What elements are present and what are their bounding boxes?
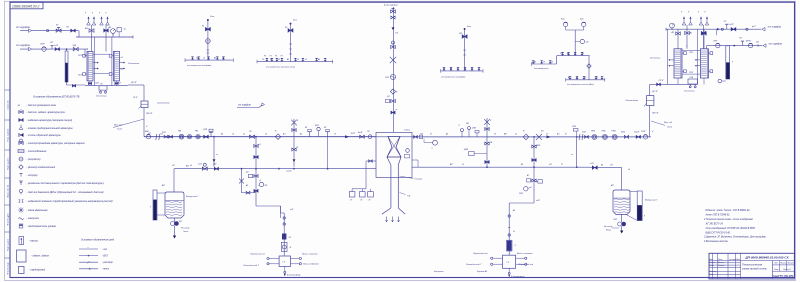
svg-text:зЗ: зЗ xyxy=(542,61,545,63)
svg-text:ЛЗ ЗГ: ЛЗ ЗГ xyxy=(658,80,665,82)
separator S1 filter xyxy=(282,234,286,240)
small valve x587 xyxy=(585,136,589,139)
svg-text:- трубопровод: - трубопровод xyxy=(29,269,46,272)
pump VN7 on feed line 2 xyxy=(42,47,46,51)
column bottom feet xyxy=(677,78,679,84)
svg-text:ОЮ ЗГ: ОЮ ЗГ xyxy=(652,113,659,115)
knockout vessel V1 line xyxy=(173,169,175,192)
svg-text:для измерения шлейфов: для измерения шлейфов xyxy=(187,64,212,67)
manifold M3 stem xyxy=(464,29,466,71)
svg-text:Подп. и дата: Подп. и дата xyxy=(8,157,10,170)
sample posts group x309-328 xyxy=(309,132,311,137)
svg-text:Упор газообразный: Р/УЗ/РУ-09-: Упор газообразный: Р/УЗ/РУ-09- 0Ю/04 В 0… xyxy=(706,227,756,230)
svg-text:ВНЗТ: ВНЗТ xyxy=(746,41,752,43)
svg-text:Годт: Годт xyxy=(117,128,122,131)
furnace outlet valve on main xyxy=(414,136,418,139)
separator S2 filter xyxy=(507,241,512,251)
column K4 feed vertical xyxy=(703,29,705,49)
svg-text:ДМВ: ДМВ xyxy=(463,149,469,151)
separator S1 left stubs xyxy=(269,258,279,260)
svg-text:- клапан предохранительной арм: - клапан предохранительной арматуры xyxy=(27,127,73,130)
svg-text:Агент ТВТ В 73546-02.: Агент ТВТ В 73546-02. xyxy=(705,213,731,216)
svg-text:лЗ: лЗ xyxy=(627,169,630,171)
right interconnect bottom xyxy=(682,73,700,75)
svg-text:Кат: Кат xyxy=(580,19,584,21)
level tube branch from feed line 2 xyxy=(66,48,68,50)
separator S1 body xyxy=(279,256,290,266)
svg-text:зЗ: зЗ xyxy=(456,68,459,70)
svg-text:для измерения шлейфов: для измерения шлейфов xyxy=(441,76,466,79)
drop x577 to lower line xyxy=(576,137,578,167)
svg-text:от шурфов: от шурфов xyxy=(16,26,30,29)
svg-text:Кат: Кат xyxy=(561,19,565,21)
svg-text:зЗ: зЗ xyxy=(595,77,598,79)
lower line right segment xyxy=(412,166,590,168)
diamond strainer x278 xyxy=(275,134,281,140)
junction dots lower line xyxy=(241,168,243,170)
x256 below lower line: control valve with positioner xyxy=(255,169,257,206)
drain drum under columns xyxy=(99,86,107,90)
separator S1 standpipe xyxy=(280,218,282,222)
svg-text:Лист: Лист xyxy=(773,269,779,271)
step from x241 to x256 xyxy=(242,192,257,194)
main line segments inside furnace xyxy=(374,136,389,138)
main process line xyxy=(144,136,376,138)
stem valve with positioner xyxy=(391,99,396,102)
lower line right junctions xyxy=(486,166,488,168)
svg-text:Справ. №: Справ. № xyxy=(7,100,10,110)
right bottom line valve xyxy=(657,83,661,86)
svg-text:Листов 1: Листов 1 xyxy=(782,269,791,271)
svg-text:Инв. № подл.: Инв. № подл. xyxy=(7,261,10,274)
column interconnect top xyxy=(93,53,109,55)
furnace pilot gas stub xyxy=(366,160,376,162)
M1 stem valve K1 xyxy=(205,27,210,31)
svg-text:Утв.: Утв. xyxy=(710,274,714,276)
svg-text:Петров: Петров xyxy=(718,265,724,267)
M3 stem marks xyxy=(463,49,466,51)
valves on vessel top line xyxy=(214,167,218,170)
right column verticals with valves xyxy=(686,25,688,49)
svg-text:Кат: Кат xyxy=(210,16,214,18)
svg-text:Охлаждение: Охлаждение xyxy=(626,99,640,102)
stem lower ticks xyxy=(391,111,395,114)
M3 stem valve xyxy=(462,35,467,39)
x534 flow meter RIZ xyxy=(524,187,528,191)
svg-text:В атмосферу: В атмосферу xyxy=(511,275,525,278)
title block columns xyxy=(712,253,714,279)
lower line stub from furnace right xyxy=(412,159,418,161)
svg-text:вЗ: вЗ xyxy=(551,61,553,63)
left margin column cells xyxy=(5,89,11,91)
svg-text:- насосу: - насосу xyxy=(29,241,39,243)
svg-text:ЗЮ: ЗЮ xyxy=(459,33,462,35)
svg-text:лЗ: лЗ xyxy=(573,53,576,55)
column 1 top feed valve AZ xyxy=(91,25,93,51)
svg-text:от шурфов: от шурфов xyxy=(238,104,251,107)
svg-text:Масса: Масса xyxy=(781,263,786,265)
svg-text:Огнеопасн.: Огнеопасн. xyxy=(96,96,108,98)
column K3 feed vertical2 xyxy=(677,29,679,49)
svg-text:- электроприводная арматура, з: - электроприводная арматура, запорные за… xyxy=(27,142,86,145)
svg-text:К2О: К2О xyxy=(614,219,618,221)
right cooler drop xyxy=(649,84,651,95)
legend small square xyxy=(19,267,25,274)
columns bottom line xyxy=(85,85,128,87)
right header line xyxy=(666,28,716,30)
svg-text:- предохранитель уровня: - предохранитель уровня xyxy=(27,225,57,228)
stem closed gate xyxy=(390,57,396,63)
diamond strainer x526 xyxy=(523,134,529,140)
svg-text:РЗ: РЗ xyxy=(270,56,272,58)
svg-text:ОЮ ЗГ: ОЮ ЗГ xyxy=(146,113,153,115)
gate valve on main line x252 xyxy=(250,135,255,138)
cooler to main line xyxy=(143,108,145,137)
column K2 xyxy=(114,51,120,81)
svg-text:- стопы обратной арматуры: - стопы обратной арматуры xyxy=(27,134,61,137)
svg-text:- регулятор: - регулятор xyxy=(27,158,42,161)
line break at main start xyxy=(156,134,160,140)
svg-text:ВШВ СУГТ-РУЗ/УЗ-140.: ВШВ СУГТ-РУЗ/УЗ-140. xyxy=(706,231,731,234)
separator S2 right stubs xyxy=(516,257,525,259)
vertical x256 to lower separator xyxy=(255,137,257,169)
right side verticals xyxy=(666,29,668,84)
svg-text:вЗ: вЗ xyxy=(203,57,205,59)
flow arrow before furnace xyxy=(345,135,350,138)
svg-text:Условные обозначения сред: Условные обозначения сред xyxy=(81,239,115,242)
svg-text:ЛУ: ЛУ xyxy=(65,27,69,29)
pump P1 on main line xyxy=(179,134,184,139)
venturi ejector inside furnace xyxy=(387,137,401,158)
stem diamond xyxy=(390,89,395,94)
branch x294 with closed gate above xyxy=(293,119,295,167)
svg-text:лЗ: лЗ xyxy=(493,134,496,136)
drop x241 with flare valve xyxy=(241,169,243,183)
right columns bottom line xyxy=(650,83,698,85)
column K4 xyxy=(700,49,708,78)
x487 positioner box DMV xyxy=(469,152,475,156)
right relief valves pair 1 xyxy=(682,22,686,25)
svg-text:Кат: Кат xyxy=(293,20,297,22)
feeder into column 1 xyxy=(84,49,86,57)
stem control valve xyxy=(391,45,396,48)
svg-text:зЗ: зЗ xyxy=(581,53,584,55)
flow leader note left xyxy=(113,119,144,128)
svg-text:Вода и очистка: Вода и очистка xyxy=(302,253,318,256)
svg-text:Лист: Лист xyxy=(717,259,723,261)
svg-text:Обратный ход: Обратный ход xyxy=(473,252,488,255)
inter-column verticals xyxy=(93,37,95,86)
svg-text:- теплообменник: - теплообменник xyxy=(27,150,48,153)
right cooler to main line xyxy=(649,106,651,137)
svg-text:ЧЫ: ЧЫ xyxy=(756,42,759,44)
svg-text:4-ый шурфов: 4-ый шурфов xyxy=(384,4,399,7)
svg-text:- задвижка арматура (запорная: - задвижка арматура (запорная секция) xyxy=(27,119,73,122)
svg-text:Воздушная Г: Воздушная Г xyxy=(186,195,199,198)
pump P3 on main line xyxy=(196,135,200,139)
separator S2 left stubs xyxy=(493,257,503,259)
right instrument box over columns xyxy=(711,51,715,56)
svg-text:3 Давление: ЗГ. Выделять. В ме: 3 Давление: ЗГ. Выделять. В метандирах. … xyxy=(704,236,767,239)
column bottom valves xyxy=(88,82,91,84)
svg-text:СамГТУ, РН-671: СамГТУ, РН-671 xyxy=(772,274,794,278)
M4 riser xyxy=(556,56,558,64)
svg-text:РЗ: РЗ xyxy=(281,56,283,58)
svg-text:Годт: Годт xyxy=(667,126,672,129)
level tube bottom stub xyxy=(722,80,726,82)
svg-text:- датчик, задвиж. арматура руч: - датчик, задвиж. арматура ручн. xyxy=(27,111,66,114)
svg-text:лЗ: лЗ xyxy=(189,165,192,167)
svg-text:Перв. примен.: Перв. примен. xyxy=(8,128,10,142)
title block doc number cell xyxy=(741,260,795,262)
svg-text:зг: зг xyxy=(215,154,218,156)
svg-text:- свеча факельная: - свеча факельная xyxy=(27,209,49,212)
svg-text:РЗ: РЗ xyxy=(560,53,562,55)
svg-text:Самот: Самот xyxy=(286,171,292,173)
svg-text:- задвижной элемент (трубопров: - задвижной элемент (трубопроводный указ… xyxy=(27,200,113,203)
svg-text:- заглушка: - заглушка xyxy=(27,217,40,220)
manifold M2 stem xyxy=(290,24,292,62)
svg-text:Газыч: Газыч xyxy=(183,231,188,233)
sample post on feed line 2 xyxy=(51,46,53,49)
svg-text:вЗ: вЗ xyxy=(243,134,245,136)
svg-text:Лит: Лит xyxy=(773,263,778,265)
pump RCHZT filled xyxy=(643,135,647,139)
knockout vessel V2 feed drop xyxy=(621,168,623,190)
svg-text:Разраб.: Разраб. xyxy=(710,262,717,264)
svg-text:Подп. и дата: Подп. и дата xyxy=(8,238,10,251)
svg-text:На свечу: На свечу xyxy=(181,228,190,230)
inner instruments xyxy=(406,149,410,153)
vessel V1 drain valve xyxy=(174,218,176,222)
column K3 xyxy=(674,49,682,78)
svg-text:лЗ: лЗ xyxy=(231,134,234,136)
M2 stem marks xyxy=(289,43,292,45)
svg-text:ДЛ ЗГ: ДЛ ЗГ xyxy=(651,91,659,93)
svg-text:АЗ: АЗ xyxy=(449,67,452,70)
svg-text:АЗ: АЗ xyxy=(566,52,569,55)
drop x534 to separator 2 xyxy=(533,137,535,203)
manifold M1 stem xyxy=(207,20,209,60)
separator S1 meter xyxy=(281,242,287,251)
svg-text:- здание, здания: - здание, здания xyxy=(31,255,49,258)
svg-text:зЗ: зЗ xyxy=(512,231,515,233)
vessel V2 drain valve xyxy=(621,215,623,223)
svg-text:АЗ: АЗ xyxy=(445,133,448,136)
instrument box over columns xyxy=(117,28,121,32)
metering manifold M1 xyxy=(185,59,233,61)
x534 mid valve xyxy=(532,159,536,162)
M5 twin gauges xyxy=(574,30,576,56)
svg-text:Инв. № дубл.: Инв. № дубл. xyxy=(7,212,10,225)
svg-text:зг: зг xyxy=(395,109,398,111)
svg-text:кЗ: кЗ xyxy=(305,59,307,61)
relief valves pair over column 1 xyxy=(87,22,91,25)
pump RM5 xyxy=(602,134,607,139)
svg-text:Вода со Времен: Вода со Времен xyxy=(303,263,319,266)
junction x534 on main xyxy=(533,136,535,138)
feed pump at main line start xyxy=(146,135,150,139)
outlet instrument circle C xyxy=(423,139,425,143)
svg-text:РМ: РМ xyxy=(195,131,198,133)
gate valve on feed line 1 xyxy=(71,29,76,32)
svg-text:- датчик давления ДМ-м (образц: - датчик давления ДМ-м (образцовый 12 - … xyxy=(27,191,104,194)
svg-text:2 Технологическая схема - пото: 2 Технологическая схема - поток шлейфовы… xyxy=(703,218,754,221)
svg-text:лЗ: лЗ xyxy=(296,59,299,61)
vessel V2 level gauge xyxy=(637,191,642,221)
metering manifold M3 xyxy=(441,70,484,72)
flow leader note right xyxy=(651,121,665,125)
svg-text:Иванов: Иванов xyxy=(718,262,724,264)
svg-text:Обратный ход: Обратный ход xyxy=(519,263,534,266)
gate valve ZhD on feed line 2 xyxy=(73,47,78,50)
svg-text:Огнеопасн.: Огнеопасн. xyxy=(128,63,140,65)
cap post x576 xyxy=(573,129,578,132)
line from columns to cooler xyxy=(128,84,144,86)
svg-text:Масшт: Масшт xyxy=(788,263,795,265)
instrument box cap x477 xyxy=(475,131,479,133)
svg-text:Охлаждённый Т: Охлаждённый Т xyxy=(243,264,259,267)
right interconnect top xyxy=(682,50,700,52)
right level gauge tube xyxy=(726,46,730,79)
svg-text:- газ: - газ xyxy=(102,249,107,251)
separator S1 vent xyxy=(284,266,286,271)
top-left document stamp xyxy=(10,2,43,9)
svg-text:Вода и очистка: Вода и очистка xyxy=(517,252,533,255)
svg-text:- датчик уровневого газа: - датчик уровневого газа xyxy=(27,104,57,107)
valve group with sample post xyxy=(204,135,209,138)
pump P2 on main line xyxy=(187,135,191,139)
valve on lower line x205 xyxy=(202,167,207,170)
burner squares xyxy=(351,189,353,192)
svg-text:Огнеопасн.: Огнеопасн. xyxy=(650,57,662,59)
metering manifold M6 xyxy=(566,79,605,81)
svg-text:АЗ: АЗ xyxy=(245,184,248,187)
svg-text:лЗ: лЗ xyxy=(463,68,466,70)
sample posts right of furnace xyxy=(461,132,463,137)
M5 to manifold M6 drop xyxy=(588,56,590,80)
svg-text:Кат: Кат xyxy=(467,26,471,28)
svg-text:зг: зг xyxy=(570,154,573,156)
svg-text:Условные обозначения ШГУЕ-ШЛУ-: Условные обозначения ШГУЕ-ШЛУ-7Б xyxy=(33,95,80,99)
valve K1 on feed line 1 xyxy=(56,29,61,32)
svg-text:Н.контр.: Н.контр. xyxy=(710,271,718,273)
metering manifold M4 lower xyxy=(532,63,557,65)
svg-text:АЗ: АЗ xyxy=(286,58,289,61)
svg-text:ДЮ: ДЮ xyxy=(212,164,216,166)
svg-text:На свечу: На свечу xyxy=(604,226,613,228)
svg-text:АТМ: АТМ xyxy=(536,144,541,147)
svg-text:АЗ: АЗ xyxy=(84,27,88,30)
level tube slant connector xyxy=(626,215,637,221)
stem small bowtie xyxy=(391,16,395,19)
vessel V1 level gauge xyxy=(153,190,157,220)
line 1 to wells right xyxy=(717,28,720,30)
svg-text:схема газовой степи: схема газовой степи xyxy=(742,267,767,270)
svg-text:- ВУЗ: - ВУЗ xyxy=(102,255,108,257)
column interconnect bottom xyxy=(93,73,109,75)
separator S2 body xyxy=(503,255,516,268)
vertical link x327 main to lower xyxy=(327,137,329,169)
svg-text:Пров.: Пров. xyxy=(710,265,715,267)
furnace stack legs xyxy=(390,165,392,208)
svg-text:АЗ: АЗ xyxy=(220,133,223,136)
right pressure gauge xyxy=(671,28,673,29)
knockout vessel V2 xyxy=(613,190,630,215)
stack bottom arrows xyxy=(386,217,388,223)
burner manifold line xyxy=(352,188,366,190)
pump RM6 xyxy=(592,134,597,139)
svg-text:В атмосферу: В атмосферу xyxy=(287,274,301,277)
vessel V2 flare arrow xyxy=(621,226,623,231)
route to separator S1 standpipe xyxy=(256,205,281,207)
title block right grid xyxy=(773,264,795,266)
junction to lower line at x214 xyxy=(213,136,215,138)
pump RM4 xyxy=(612,134,617,139)
flag arrow to wells mid-left xyxy=(237,107,259,109)
svg-text:- фильтр конденсатный: - фильтр конденсатный xyxy=(27,166,56,169)
separator S1 right stubs xyxy=(291,258,300,260)
furnace enclosure xyxy=(376,132,412,177)
stem actuator valve xyxy=(391,10,396,13)
svg-text:Воздушная Г: Воздушная Г xyxy=(645,199,658,202)
svg-text:Огнеопасн.: Огнеопасн. xyxy=(684,91,696,93)
svg-text:К1: К1 xyxy=(202,26,204,28)
svg-text:вЗ: вЗ xyxy=(576,77,578,79)
M5 side regulator xyxy=(575,41,580,43)
x534 upper valve xyxy=(532,145,536,148)
corner line1 down xyxy=(715,29,717,35)
svg-text:АЗ: АЗ xyxy=(600,163,603,166)
svg-text:РМ: РМ xyxy=(178,131,181,133)
stem arrow down xyxy=(392,27,395,30)
svg-text:- указатель дистанционного тер: - указатель дистанционного термометра (д… xyxy=(27,182,104,185)
svg-text:АЗ: АЗ xyxy=(299,133,302,136)
svg-text:Избыточ. средн. Технол.: СКГ В: Избыточ. средн. Технол.: СКГ В 98601-02. xyxy=(706,209,751,212)
svg-text:вЗ: вЗ xyxy=(278,59,280,61)
right relief valves pair 2 xyxy=(699,22,703,25)
title block rows left xyxy=(709,260,741,262)
venturi outlet cone xyxy=(387,157,401,165)
small valves x166 xyxy=(164,135,168,138)
svg-text:Ж: Ж xyxy=(289,247,292,249)
right drain drum xyxy=(688,79,698,84)
svg-text:Млн. м3: Млн. м3 xyxy=(114,125,123,127)
svg-text:Копировал: Копировал xyxy=(434,271,444,273)
svg-text:АЗ: АЗ xyxy=(512,209,515,212)
flow arrow after x539 xyxy=(547,135,552,138)
pressure gauge over columns xyxy=(112,34,114,38)
knockout vessel V1 xyxy=(165,192,184,218)
svg-text:Ч.Зона: Ч.Зона xyxy=(404,130,410,132)
svg-text:от шурфов: от шурфов xyxy=(769,42,783,45)
column 2 top vertical xyxy=(105,25,107,51)
svg-text:СВВБ.999945.03-2: СВВБ.999945.03-2 xyxy=(12,4,40,8)
svg-text:от шурфов: от шурфов xyxy=(768,26,782,29)
branch x487 with closed gate above xyxy=(486,118,488,167)
legend pump symbol row xyxy=(19,237,24,245)
level gauge tube at column 1 xyxy=(65,51,68,82)
feed line 1 drop to header xyxy=(78,31,80,37)
x294 mid valve xyxy=(292,148,296,151)
svg-text:зЗ: зЗ xyxy=(461,164,464,166)
junction x257 xyxy=(255,136,257,138)
cooler heat exchanger left xyxy=(141,101,148,108)
svg-text:ЗЮ: ЗЮ xyxy=(466,123,469,125)
vessel V1 flare arrow xyxy=(174,226,176,237)
svg-text:АЗ: АЗ xyxy=(317,58,320,61)
separator S2 feed elbow xyxy=(509,202,534,204)
